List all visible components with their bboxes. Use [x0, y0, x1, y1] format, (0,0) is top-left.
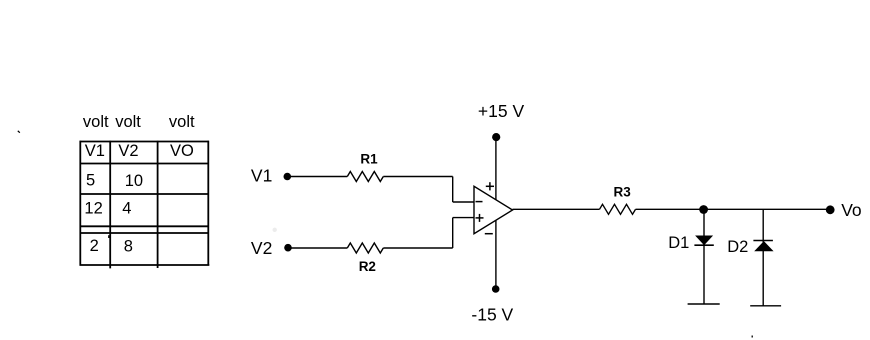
svg-text:R2: R2	[359, 259, 376, 274]
svg-text:V2: V2	[251, 238, 272, 258]
svg-text:8: 8	[124, 238, 133, 256]
svg-text:R1: R1	[360, 152, 378, 167]
svg-text:4: 4	[122, 199, 131, 217]
svg-text:V2: V2	[118, 142, 138, 160]
svg-text:5: 5	[86, 172, 95, 190]
svg-text:volt: volt	[115, 113, 141, 131]
svg-text:10: 10	[125, 172, 143, 190]
svg-text:D1: D1	[668, 234, 689, 252]
svg-text:Vo: Vo	[841, 200, 861, 220]
svg-text:VO: VO	[170, 142, 194, 160]
svg-text:volt: volt	[83, 113, 109, 131]
svg-text:-15 V: -15 V	[471, 305, 513, 325]
svg-text:+15 V: +15 V	[478, 101, 525, 121]
svg-text:D2: D2	[727, 238, 748, 256]
svg-text:V1: V1	[251, 166, 272, 186]
svg-text:R3: R3	[614, 184, 632, 199]
svg-text:V1: V1	[85, 142, 105, 160]
svg-text:2: 2	[90, 237, 99, 255]
svg-text:volt: volt	[169, 113, 195, 131]
svg-text:12: 12	[84, 200, 102, 218]
